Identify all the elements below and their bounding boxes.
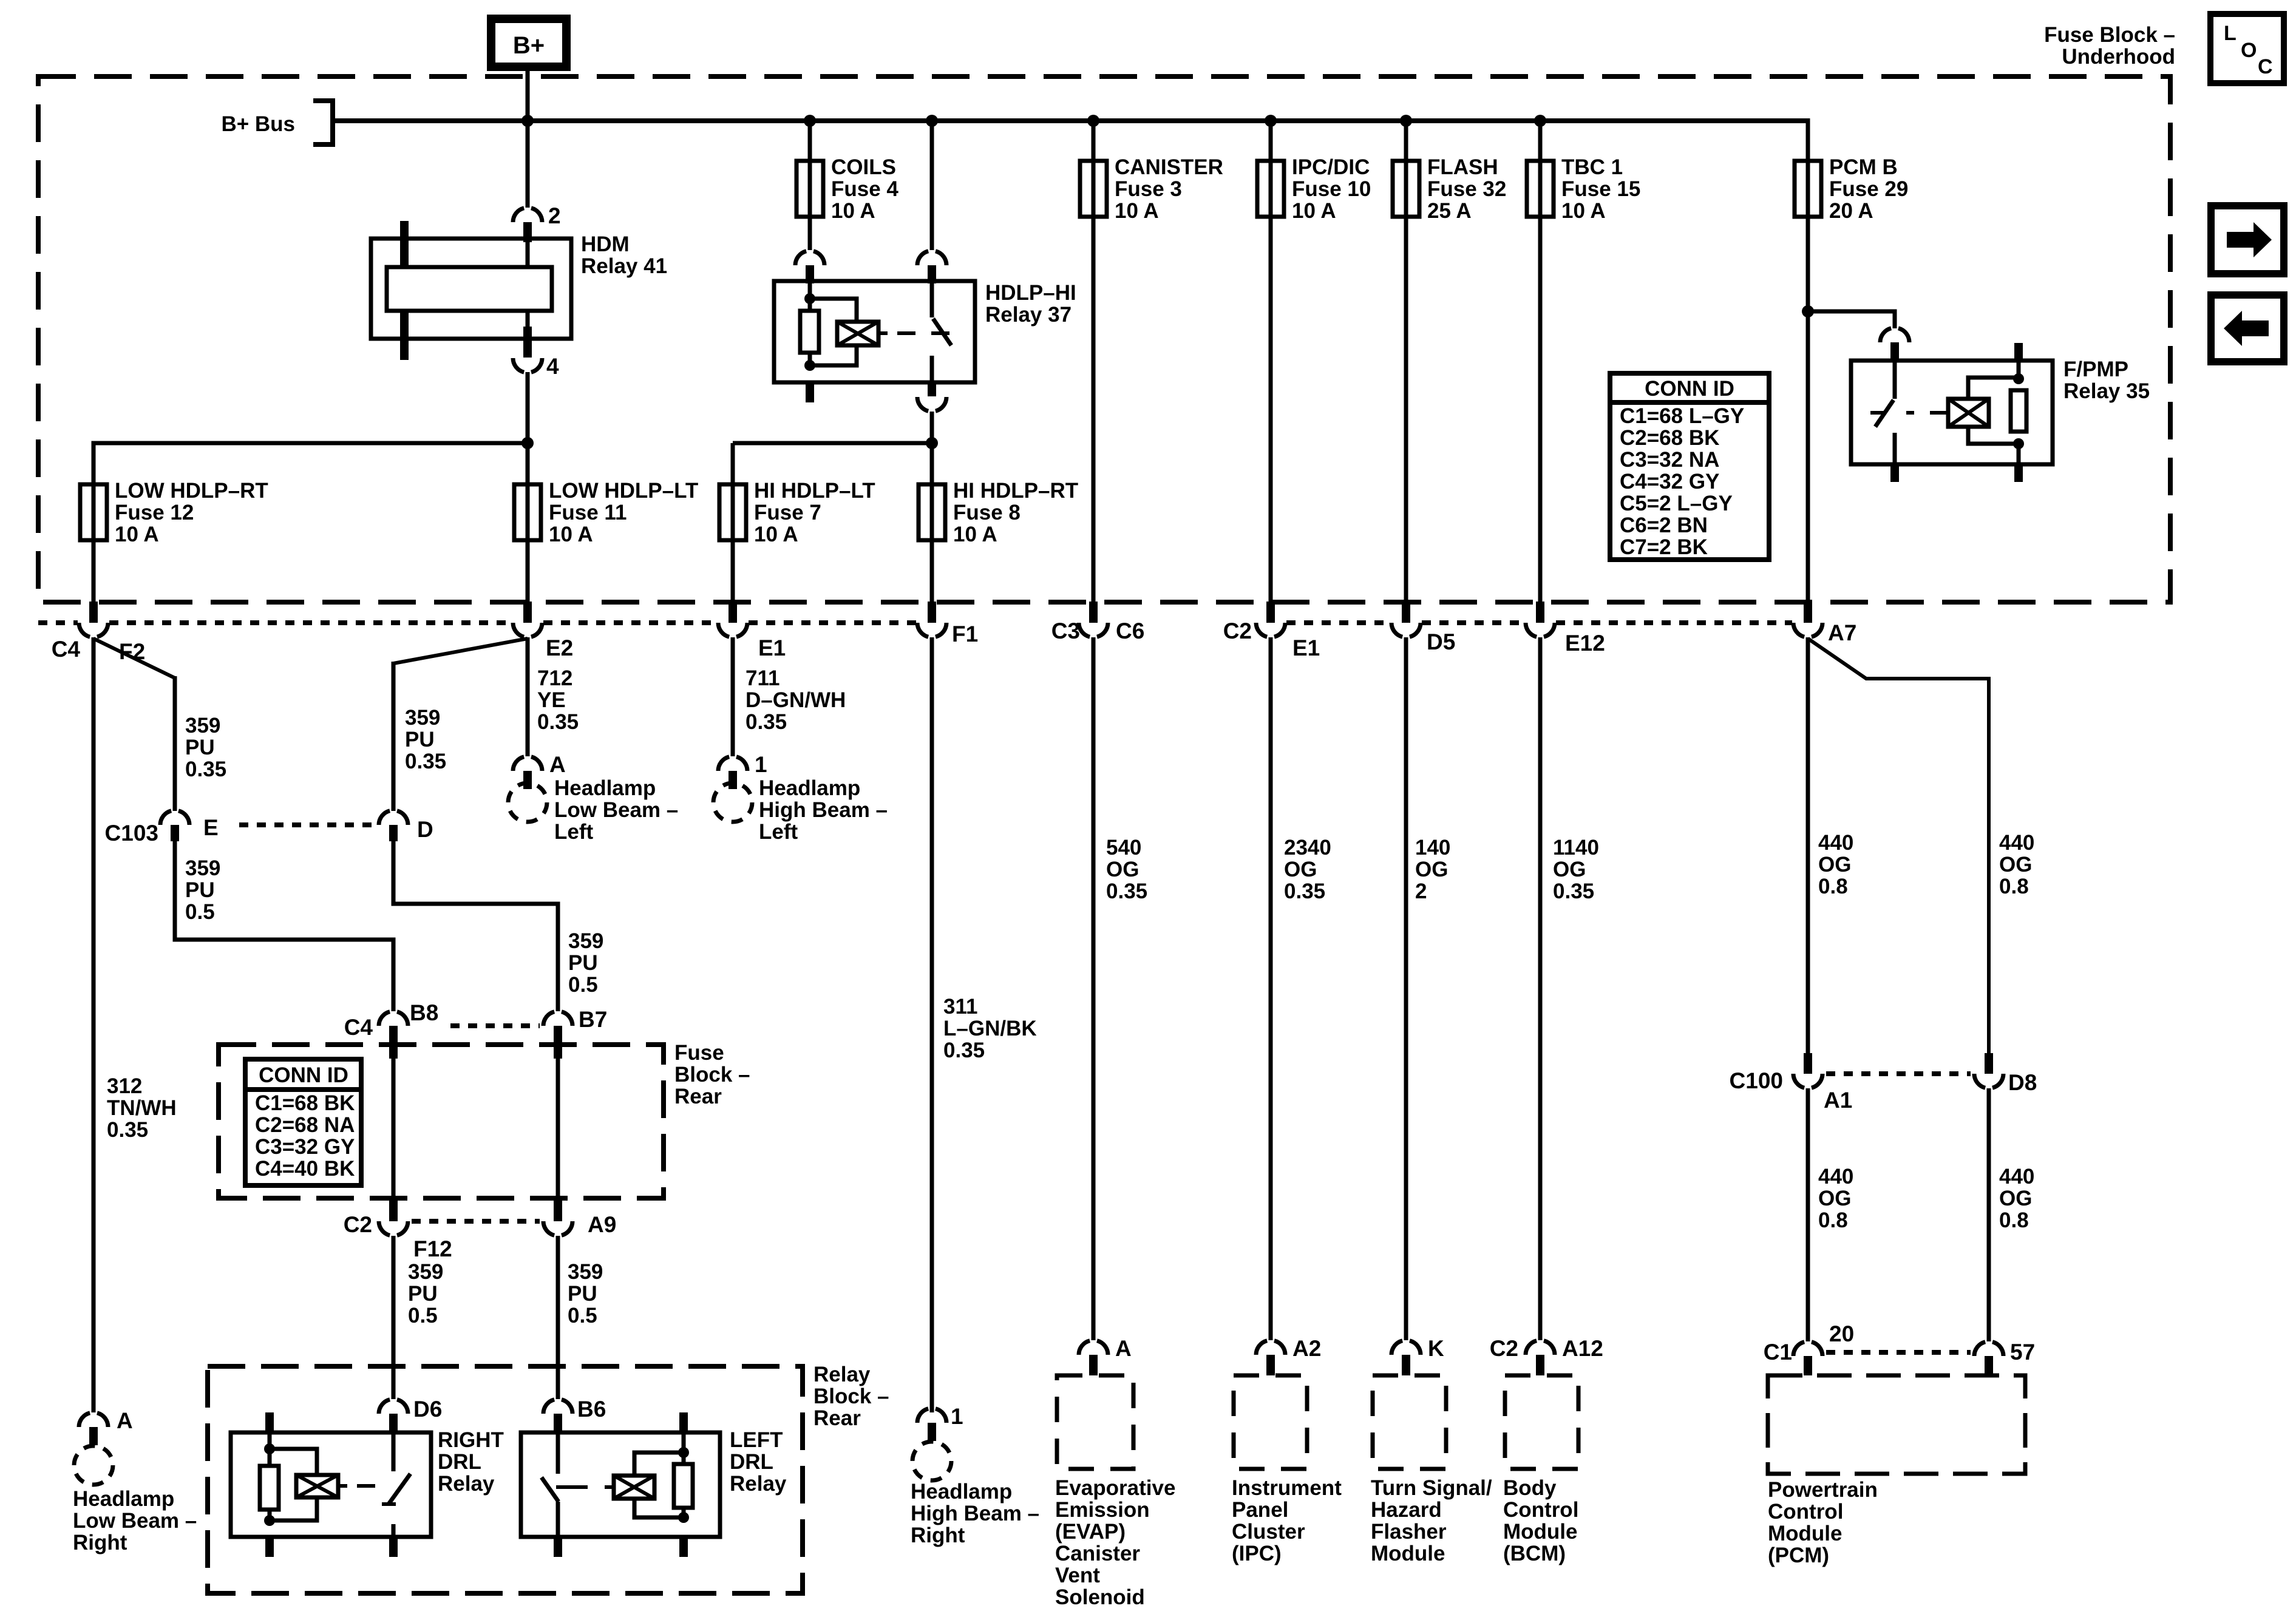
label: C4 (rear) <box>344 1015 373 1040</box>
wire: E2 to headlamp low beam left <box>526 637 530 756</box>
svg-text:OG: OG <box>1818 853 1851 876</box>
label: LOW HDLP-LT Fuse 11 10 A <box>549 479 698 546</box>
label: 359 PU 0.5 (F12) <box>408 1260 443 1327</box>
connector K <box>1391 1340 1421 1375</box>
svg-text:L: L <box>2224 22 2237 45</box>
label: A7 <box>1828 620 1856 645</box>
svg-text:Fuse 8: Fuse 8 <box>953 501 1021 524</box>
svg-text:Relay 35: Relay 35 <box>2063 379 2150 403</box>
wire: FLASH Fuse 32 down to connector <box>1404 217 1408 602</box>
connector C4 B8 <box>379 1011 408 1059</box>
svg-text:Headlamp: Headlamp <box>73 1487 174 1511</box>
label: pin 2 <box>548 203 561 228</box>
wire: HI feed down to fuse 8 <box>930 443 934 484</box>
label: 712 YE 0.35 <box>537 666 579 734</box>
connector pin 57 <box>1974 1341 2003 1375</box>
wire: fuse 7 down <box>731 540 735 602</box>
label: Instrument Panel Cluster box <box>1232 1476 1342 1565</box>
svg-text:Fuse 7: Fuse 7 <box>754 501 821 524</box>
svg-text:C4: C4 <box>52 637 81 662</box>
svg-text:Left: Left <box>759 820 798 844</box>
svg-text:K: K <box>1428 1336 1444 1361</box>
wire: bus to FLASH Fuse 32 <box>1404 121 1408 161</box>
svg-text:Relay: Relay <box>813 1363 871 1386</box>
svg-text:C4=40 BK: C4=40 BK <box>255 1157 355 1181</box>
wire: EVAP canister vent solenoid box drop <box>1092 637 1096 1340</box>
connector 1 (headlamp high beam left) <box>718 756 747 789</box>
junction dot at low-beam feed <box>521 437 534 449</box>
label: EVAP canister vent solenoid box <box>1055 1476 1175 1609</box>
label: TBC 1 Fuse 15 <box>1561 155 1640 223</box>
label: F2 <box>119 639 145 664</box>
svg-text:C3=32 GY: C3=32 GY <box>255 1135 355 1159</box>
svg-text:A: A <box>549 752 566 777</box>
svg-text:High Beam –: High Beam – <box>911 1502 1039 1525</box>
svg-text:OG: OG <box>1415 858 1448 881</box>
svg-text:Fuse 12: Fuse 12 <box>115 501 194 524</box>
svg-text:IPC/DIC: IPC/DIC <box>1292 155 1370 179</box>
wire: D8 to PCM pin 57 <box>1987 1088 1991 1341</box>
svg-text:LEFT: LEFT <box>730 1428 783 1452</box>
label: 311 L-GN/BK 0.35 <box>943 995 1037 1062</box>
label: Headlamp Low Beam - Right <box>73 1487 197 1554</box>
svg-text:COILS: COILS <box>831 155 896 179</box>
svg-text:1140: 1140 <box>1553 836 1599 859</box>
svg-text:B6: B6 <box>577 1397 606 1422</box>
svg-text:0.5: 0.5 <box>185 900 215 924</box>
connector A (headlamp low beam left) <box>513 756 542 789</box>
connector C4 / F2 <box>79 602 108 637</box>
svg-text:E12: E12 <box>1565 631 1605 656</box>
svg-text:FLASH: FLASH <box>1427 155 1498 179</box>
svg-text:359: 359 <box>568 1260 603 1284</box>
label: E12 <box>1565 631 1605 656</box>
label: LOW HDLP-RT Fuse 12 10 A <box>115 479 268 546</box>
label: D5 <box>1427 629 1455 654</box>
svg-text:LOW HDLP–LT: LOW HDLP–LT <box>549 479 698 503</box>
svg-text:Module: Module <box>1371 1542 1445 1565</box>
label: C100 <box>1730 1068 1783 1093</box>
svg-text:D8: D8 <box>2008 1070 2037 1095</box>
wire: F2 diagonal to C103 E <box>93 639 175 678</box>
wire: branch to F/PMP relay <box>1808 311 1895 328</box>
svg-text:Rear: Rear <box>813 1406 861 1430</box>
label: A9 <box>588 1212 616 1237</box>
svg-text:RIGHT: RIGHT <box>438 1428 504 1452</box>
svg-text:Canister: Canister <box>1055 1542 1140 1565</box>
svg-text:0.35: 0.35 <box>1106 880 1147 903</box>
svg-text:A: A <box>117 1408 133 1433</box>
svg-text:Right: Right <box>911 1524 965 1547</box>
svg-text:CANISTER: CANISTER <box>1115 155 1223 179</box>
svg-text:DRL: DRL <box>438 1450 481 1474</box>
svg-text:Right: Right <box>73 1531 127 1554</box>
svg-text:Fuse 3: Fuse 3 <box>1115 177 1182 201</box>
svg-text:25 A: 25 A <box>1427 199 1472 223</box>
svg-text:359: 359 <box>185 856 220 880</box>
connector A12 <box>1526 1340 1555 1375</box>
junction dots on bus <box>521 115 1546 127</box>
svg-text:711: 711 <box>746 666 779 690</box>
svg-text:20 A: 20 A <box>1829 199 1873 223</box>
svg-text:C6=2 BN: C6=2 BN <box>1620 514 1708 537</box>
svg-text:A12: A12 <box>1562 1336 1603 1361</box>
svg-text:57: 57 <box>2010 1340 2035 1364</box>
CONN ID table (fuse block underhood) <box>1610 373 1769 560</box>
svg-text:Fuse 11: Fuse 11 <box>549 501 627 524</box>
svg-text:Fuse: Fuse <box>674 1041 724 1065</box>
wire: bus to HDM relay pin 2 <box>526 121 530 208</box>
svg-text:0.5: 0.5 <box>568 973 598 997</box>
svg-text:B+ Bus: B+ Bus <box>221 112 295 136</box>
fuse IPC/DIC Fuse 10 <box>1257 161 1284 217</box>
wire: F12 to right DRL relay <box>392 1236 396 1399</box>
connector A <box>1079 1340 1108 1375</box>
label: 312 TN/WH 0.35 <box>107 1074 177 1142</box>
svg-text:0.8: 0.8 <box>1818 1209 1848 1232</box>
svg-text:C7=2 BK: C7=2 BK <box>1620 535 1708 559</box>
svg-text:312: 312 <box>107 1074 142 1098</box>
svg-text:Fuse 29: Fuse 29 <box>1829 177 1908 201</box>
svg-text:Vent: Vent <box>1055 1564 1100 1587</box>
label: 359 PU 0.5 (D leg) <box>568 929 603 997</box>
label: Turn Signal/Hazard Flasher Module box <box>1371 1476 1492 1565</box>
label: 140 OG 2 <box>1415 836 1450 903</box>
svg-text:Fuse Block –: Fuse Block – <box>2044 23 2175 47</box>
svg-text:D5: D5 <box>1427 629 1455 654</box>
svg-text:Module: Module <box>1503 1520 1577 1544</box>
svg-text:A: A <box>1115 1336 1132 1361</box>
relay F/PMP Relay 35 <box>1851 343 2053 482</box>
fuse HI HDLP-LT Fuse 7 <box>719 484 746 540</box>
Powertrain Control Module box <box>1768 1375 2025 1474</box>
wire: bus to CANISTER Fuse 3 <box>1092 121 1096 161</box>
svg-text:0.35: 0.35 <box>185 758 226 781</box>
svg-text:OG: OG <box>1284 858 1317 881</box>
svg-text:10 A: 10 A <box>115 523 159 546</box>
label: 711 D-GN/WH 0.35 <box>746 666 846 734</box>
svg-text:10 A: 10 A <box>831 199 875 223</box>
svg-text:C4=32 GY: C4=32 GY <box>1620 470 1719 493</box>
svg-text:(PCM): (PCM) <box>1768 1544 1829 1567</box>
label: B6 <box>577 1397 606 1422</box>
svg-text:2: 2 <box>548 203 561 228</box>
label: CANISTER Fuse 3 <box>1115 155 1223 223</box>
label: Powertrain Control Module (PCM) <box>1768 1478 1878 1567</box>
svg-text:C1=68 L–GY: C1=68 L–GY <box>1620 404 1744 428</box>
connector C1 pin 20 <box>1793 1341 1822 1375</box>
svg-text:0.35: 0.35 <box>405 750 446 773</box>
svg-text:D–GN/WH: D–GN/WH <box>746 688 846 712</box>
svg-text:1: 1 <box>755 752 767 777</box>
svg-text:Underhood: Underhood <box>2062 45 2175 69</box>
connector A7 <box>1793 602 1822 637</box>
wire: PCM B fuse down to connector <box>1806 217 1810 602</box>
svg-text:C5=2 L–GY: C5=2 L–GY <box>1620 492 1733 515</box>
wire: Turn Signal/Hazard Flasher Module box drop <box>1404 637 1408 1340</box>
wire: E1 to headlamp high beam left <box>731 637 735 756</box>
label: C2 (rear) <box>344 1212 372 1237</box>
label: RIGHT DRL Relay <box>438 1428 504 1496</box>
svg-text:Emission: Emission <box>1055 1498 1150 1522</box>
svg-text:LOW HDLP–RT: LOW HDLP–RT <box>115 479 268 503</box>
svg-text:10 A: 10 A <box>953 523 997 546</box>
headlamp high beam left (dashed circle) <box>713 783 752 822</box>
connector F1 <box>917 602 946 637</box>
svg-text:440: 440 <box>1999 1165 2034 1188</box>
relay HDM Relay 41 <box>371 221 571 360</box>
connector C103 D <box>379 810 408 841</box>
C103 dotted line <box>239 822 375 827</box>
label: IPC/DIC Fuse 10 <box>1292 155 1371 223</box>
label: F1 <box>952 622 978 646</box>
label: HI HDLP-LT Fuse 7 10 A <box>754 479 875 546</box>
wire: B8 through fuse block rear <box>392 1059 396 1201</box>
label: Fuse Block - Underhood <box>2044 23 2175 69</box>
svg-text:Module: Module <box>1768 1522 1842 1545</box>
svg-text:Block –: Block – <box>813 1385 889 1408</box>
svg-text:0.35: 0.35 <box>1553 880 1594 903</box>
EVAP canister vent solenoid box <box>1057 1375 1133 1469</box>
svg-text:O: O <box>2241 39 2257 62</box>
wire: feed to LOW HDLP-RT fuse <box>93 443 528 484</box>
wire: fuse 11 down <box>526 540 530 602</box>
label: F12 <box>413 1236 452 1261</box>
connector C103 E <box>160 810 189 841</box>
svg-text:D: D <box>417 817 433 842</box>
label: A (low beam right) <box>117 1408 133 1433</box>
svg-text:0.35: 0.35 <box>537 710 579 734</box>
label: Headlamp High Beam - Left <box>759 776 888 844</box>
wire: bus to IPC/DIC Fuse 10 <box>1269 121 1273 161</box>
label: 440 OG 0.8 (57 leg) <box>1999 1165 2034 1232</box>
svg-text:CONN ID: CONN ID <box>1645 377 1734 401</box>
svg-text:A1: A1 <box>1824 1088 1852 1113</box>
svg-text:B8: B8 <box>410 1000 438 1025</box>
wire: bus corner to PCM B fuse <box>1806 118 1810 161</box>
wire: Instrument Panel Cluster box drop <box>1269 637 1273 1340</box>
label: 2340 OG 0.35 <box>1284 836 1331 903</box>
label: C103 <box>105 821 158 846</box>
B+ Bus bracket <box>313 101 333 144</box>
wire: A7 down to C100 A1 <box>1806 637 1810 1054</box>
svg-text:Evaporative: Evaporative <box>1055 1476 1175 1500</box>
svg-text:E1: E1 <box>758 636 786 660</box>
label: A <box>1115 1336 1132 1361</box>
wire: down to C103 E <box>173 676 177 811</box>
svg-text:C1=68 BK: C1=68 BK <box>255 1091 355 1115</box>
svg-text:C3=32 NA: C3=32 NA <box>1620 448 1719 472</box>
svg-text:C6: C6 <box>1116 619 1144 643</box>
relay HDLP-HI Relay 37 <box>774 281 975 402</box>
label: B+ Bus <box>221 112 295 136</box>
label: D8 <box>2008 1070 2037 1095</box>
svg-text:Instrument: Instrument <box>1232 1476 1342 1500</box>
svg-text:359: 359 <box>405 706 440 730</box>
label: F/PMP Relay 35 <box>2063 358 2150 403</box>
wire: fuse 4 to relay 37 coil pin <box>808 217 812 250</box>
B8-B7 dotted line <box>450 1023 540 1028</box>
svg-text:140: 140 <box>1415 836 1450 859</box>
label: Fuse Block - Rear <box>674 1041 750 1108</box>
svg-text:F12: F12 <box>413 1236 452 1261</box>
connector 1 (headlamp high beam right) <box>917 1408 946 1441</box>
label: C6 <box>1116 619 1144 643</box>
wire: B+ to bus <box>526 67 530 121</box>
svg-text:C2: C2 <box>1223 619 1252 643</box>
svg-text:(IPC): (IPC) <box>1232 1542 1282 1565</box>
label: LEFT DRL Relay <box>730 1428 787 1496</box>
wire: IPC/DIC Fuse 10 down to connector <box>1269 217 1273 602</box>
svg-text:Flasher: Flasher <box>1371 1520 1447 1544</box>
wire: bus to relay 37 switch <box>930 121 934 250</box>
connector C100 A1 <box>1793 1053 1822 1088</box>
label: A2 <box>1292 1336 1321 1361</box>
wire: fuse 12 to headlamp low beam right <box>92 637 96 1412</box>
svg-text:0.8: 0.8 <box>1999 875 2029 898</box>
svg-text:311: 311 <box>943 995 977 1019</box>
svg-text:OG: OG <box>1106 858 1139 881</box>
connector B6 <box>543 1399 572 1432</box>
label: C1 <box>1764 1340 1792 1364</box>
wire: relay 37 to HI fuses <box>733 412 932 484</box>
svg-text:Fuse 4: Fuse 4 <box>831 177 898 201</box>
svg-text:Panel: Panel <box>1232 1498 1288 1522</box>
junction dot F/PMP branch <box>1802 305 1814 317</box>
svg-text:B+: B+ <box>513 32 545 59</box>
fuse HI HDLP-RT Fuse 8 <box>919 484 945 540</box>
svg-text:0.8: 0.8 <box>1999 1209 2029 1232</box>
svg-text:Relay 37: Relay 37 <box>985 303 1072 327</box>
label: 540 OG 0.35 <box>1106 836 1147 903</box>
svg-text:TN/WH: TN/WH <box>107 1096 177 1120</box>
svg-text:0.35: 0.35 <box>746 710 787 734</box>
wire: bus to TBC 1 Fuse 15 <box>1538 121 1543 161</box>
connector A9 <box>543 1201 572 1236</box>
svg-text:1: 1 <box>951 1404 963 1429</box>
svg-text:Fuse 15: Fuse 15 <box>1561 177 1640 201</box>
svg-text:(BCM): (BCM) <box>1503 1542 1566 1565</box>
svg-text:Headlamp: Headlamp <box>911 1480 1012 1503</box>
connector pin (F/PMP switch) <box>1880 328 1909 361</box>
wire: A7 diagonal branch <box>1808 639 1989 1054</box>
svg-text:C103: C103 <box>105 821 158 846</box>
fuse PCM B Fuse 29 <box>1795 161 1821 217</box>
arrow box (right) <box>2211 206 2284 274</box>
svg-text:A7: A7 <box>1828 620 1856 645</box>
svg-text:Solenoid: Solenoid <box>1055 1585 1145 1609</box>
relay block rear dashed border <box>208 1366 803 1593</box>
C100 dotted line <box>1826 1071 1971 1076</box>
LOC reference box <box>2210 14 2284 83</box>
label: HDM Relay 41 <box>581 232 667 278</box>
label: 1 (high beam left) <box>755 752 767 777</box>
svg-text:440: 440 <box>1818 831 1853 855</box>
C1 dotted line <box>1826 1350 1971 1355</box>
svg-text:Relay: Relay <box>730 1472 787 1496</box>
svg-text:C2=68 NA: C2=68 NA <box>255 1113 355 1137</box>
label: D6 <box>413 1397 442 1422</box>
fuse block underhood dashed border <box>38 76 2170 602</box>
svg-text:Powertrain: Powertrain <box>1768 1478 1878 1502</box>
svg-text:PU: PU <box>568 951 598 975</box>
label: C2 (BCM) <box>1490 1336 1518 1361</box>
wire: feed to LOW HDLP-LT fuse <box>526 443 530 484</box>
label: HI HDLP-RT Fuse 8 10 A <box>953 479 1078 546</box>
svg-text:Hazard: Hazard <box>1371 1498 1442 1522</box>
power symbol B+ <box>491 19 566 67</box>
svg-text:HDM: HDM <box>581 232 630 256</box>
connector D6 <box>379 1399 408 1432</box>
svg-text:0.5: 0.5 <box>408 1304 438 1327</box>
label: B8 <box>410 1000 438 1025</box>
connector C2 / E1 <box>1256 602 1285 637</box>
label: 359 PU 0.35 (right) <box>405 706 446 773</box>
connector B7 <box>543 1011 572 1059</box>
fuse COILS Fuse 4 <box>796 161 823 217</box>
Turn Signal/Hazard Flasher Module box <box>1373 1375 1446 1469</box>
label: pin 4 <box>546 354 559 379</box>
svg-text:OG: OG <box>1999 853 2032 876</box>
label: 440 OG 0.8 (20 leg) <box>1818 1165 1853 1232</box>
label: 440 OG 0.8 (A1 upper) <box>1818 831 1853 898</box>
svg-text:0.35: 0.35 <box>943 1039 985 1062</box>
wire: B7 through fuse block rear <box>556 1059 560 1201</box>
fuse LOW HDLP-RT Fuse 12 <box>80 484 107 540</box>
svg-text:C2: C2 <box>1490 1336 1518 1361</box>
wire: B+ bus <box>333 118 1808 123</box>
svg-text:4: 4 <box>546 354 559 379</box>
svg-text:Headlamp: Headlamp <box>554 776 656 800</box>
headlamp low beam left (dashed circle) <box>508 783 547 822</box>
svg-text:0.8: 0.8 <box>1818 875 1848 898</box>
label: E1 (row) <box>1292 636 1320 660</box>
label: A12 <box>1562 1336 1603 1361</box>
fuse LOW HDLP-LT Fuse 11 <box>514 484 541 540</box>
svg-text:0.35: 0.35 <box>107 1118 148 1142</box>
junction dot HI feed <box>926 437 938 449</box>
label: Headlamp High Beam - Right <box>911 1480 1039 1547</box>
svg-text:F/PMP: F/PMP <box>2063 358 2128 381</box>
svg-text:E: E <box>203 815 219 840</box>
svg-text:Fuse 32: Fuse 32 <box>1427 177 1506 201</box>
svg-text:DRL: DRL <box>730 1450 773 1474</box>
connector E12 <box>1526 602 1555 637</box>
label: C2 (row) <box>1223 619 1252 643</box>
svg-text:C2=68 BK: C2=68 BK <box>1620 426 1719 450</box>
label: 1 (high beam right) <box>951 1404 963 1429</box>
Instrument Panel Cluster box <box>1234 1375 1307 1469</box>
svg-text:C1: C1 <box>1764 1340 1792 1364</box>
svg-text:F1: F1 <box>952 622 978 646</box>
svg-text:359: 359 <box>408 1260 443 1284</box>
label: Relay Block - Rear <box>813 1363 889 1430</box>
svg-text:PU: PU <box>408 1282 438 1306</box>
label: A (low beam left) <box>549 752 566 777</box>
svg-text:E1: E1 <box>1292 636 1320 660</box>
connector pin 4 of HDM relay <box>513 327 542 373</box>
label: B7 <box>579 1007 607 1032</box>
svg-text:10 A: 10 A <box>1561 199 1606 223</box>
label: 359 PU 0.5 (A9) <box>568 1260 603 1327</box>
svg-text:B7: B7 <box>579 1007 607 1032</box>
fuse FLASH Fuse 32 <box>1393 161 1419 217</box>
CONN ID table (fuse block rear) <box>245 1059 361 1185</box>
wire: A1 to PCM pin 20 <box>1806 1088 1810 1341</box>
label: C3 <box>1051 619 1080 643</box>
fuse TBC 1 Fuse 15 <box>1527 161 1554 217</box>
connector C2 F12 <box>379 1201 408 1236</box>
